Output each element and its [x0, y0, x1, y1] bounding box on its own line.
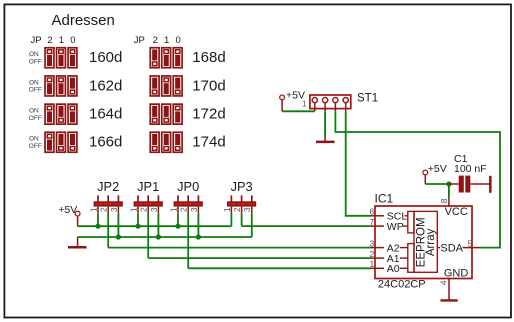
connection dashes from pin names to inner blocks	[400, 216, 408, 268]
junction GND/JP0.3	[196, 234, 201, 239]
wire net A0: JP0 pin2 to IC1 A0	[188, 267, 370, 269]
ground symbol under IC1	[441, 299, 458, 301]
wire JP2 pin2 down to A2 row	[107, 214, 109, 248]
junction GND/JP1.3	[156, 234, 161, 239]
svg-text:100 nF: 100 nF	[454, 163, 487, 175]
DIP switch setting 166d (JP2/JP1/JP0)	[45, 132, 77, 152]
DIP switch setting 160d (JP2/JP1/JP0)	[45, 48, 77, 68]
pin 1 A0 of IC1	[369, 259, 384, 269]
svg-text:172d: 172d	[192, 106, 225, 123]
svg-text:JP2: JP2	[97, 179, 119, 194]
svg-text:168d: 168d	[192, 49, 225, 66]
svg-text:3: 3	[190, 207, 199, 212]
svg-text:3: 3	[150, 207, 159, 212]
column header "JP 2 1 0" (right)	[134, 35, 181, 46]
svg-text:1: 1	[129, 207, 138, 212]
svg-text:WP: WP	[387, 221, 404, 233]
label EEPROM Array (rotated)	[416, 217, 437, 267]
DIP switch setting 174d (JP2/JP1/JP0)	[150, 132, 182, 152]
jumper JP1	[134, 195, 163, 213]
junction +5V/JP1.1	[135, 224, 140, 229]
svg-text:2: 2	[233, 207, 242, 212]
junction +5V/JP0.1	[175, 224, 180, 229]
pin 2 A1 of IC1	[369, 249, 384, 259]
ON/OFF label row 4	[29, 136, 42, 150]
wire JP1 pin2 down to A1 row	[147, 214, 149, 259]
svg-text:174d: 174d	[192, 134, 225, 151]
wire JP3 pin3 to GND row	[251, 214, 253, 237]
pin numbers 1 2 3 of JP2	[89, 207, 118, 212]
pin 6 SCL of IC1	[369, 207, 384, 217]
svg-text:GND: GND	[444, 268, 469, 280]
wire +5V to ST1 pin 1	[282, 110, 315, 112]
jumper JP2	[94, 195, 123, 213]
svg-text:1: 1	[223, 207, 232, 212]
pin numbers 1 2 3 of JP1	[129, 207, 158, 212]
DIP switch setting 164d (JP2/JP1/JP0)	[45, 104, 77, 124]
svg-text:0: 0	[176, 35, 181, 46]
wire JP1 pin1 to +5V row	[137, 214, 139, 227]
svg-text:ON: ON	[29, 51, 39, 58]
svg-text:JP0: JP0	[177, 179, 199, 194]
junction GND/JP2.3	[116, 234, 121, 239]
svg-text:2: 2	[369, 249, 374, 259]
wire net SDA: ST1 pin 3 right and down to IC1 SDA	[335, 111, 500, 247]
svg-text:JP1: JP1	[137, 179, 159, 194]
+5V supply symbol at C1	[423, 170, 428, 184]
svg-text:6: 6	[369, 207, 374, 217]
svg-text:2: 2	[180, 207, 189, 212]
wire net A1: JP1 pin2 to IC1 A1	[148, 257, 370, 259]
inner block: address bracket	[408, 244, 414, 273]
svg-text:OFF: OFF	[29, 143, 42, 150]
svg-text:2: 2	[140, 207, 149, 212]
svg-text:164d: 164d	[89, 106, 122, 123]
svg-text:170d: 170d	[192, 77, 225, 94]
svg-text:OFF: OFF	[29, 59, 42, 66]
svg-text:+5V: +5V	[428, 163, 447, 175]
inner block: EEPROM array rectangle	[414, 211, 437, 272]
wire net A2: JP2 pin2 to IC1 A2	[108, 247, 370, 249]
ground symbol under ST1	[316, 137, 335, 142]
svg-text:3: 3	[243, 207, 252, 212]
svg-text:2: 2	[153, 35, 158, 46]
svg-text:ST1: ST1	[357, 92, 378, 104]
svg-text:A0: A0	[387, 263, 400, 275]
pin numbers 1 2 3 of JP3	[223, 207, 252, 212]
wire JP0 pin3 to GND row	[197, 214, 199, 237]
svg-text:3: 3	[110, 207, 119, 212]
DIP switch setting 172d (JP2/JP1/JP0)	[150, 104, 182, 124]
wire VCC node down to IC1 VCC pin	[448, 184, 450, 198]
wire JP2 pin1 to +5V row	[97, 214, 99, 227]
wire GND row (net GND) from ground to JP3 pin 3	[78, 236, 252, 238]
svg-text:8: 8	[439, 198, 449, 203]
svg-text:162d: 162d	[89, 77, 122, 94]
svg-text:0: 0	[70, 35, 75, 46]
svg-text:OFF: OFF	[29, 87, 42, 94]
pin numbers 1 2 3 of JP0	[169, 207, 198, 212]
capacitor C1	[449, 176, 490, 193]
svg-text:1: 1	[59, 35, 64, 46]
wire JP3 pin1 to +5V row	[230, 214, 232, 227]
junction VCC node	[446, 181, 451, 186]
svg-text:1: 1	[164, 35, 169, 46]
ground symbol right of C1 (rotated)	[489, 176, 492, 193]
svg-text:IC1: IC1	[375, 191, 394, 205]
+5V supply symbol (left, jumper row)	[75, 211, 80, 226]
svg-text:ON: ON	[29, 136, 39, 143]
svg-text:JP: JP	[134, 35, 145, 46]
DIP switch setting 168d (JP2/JP1/JP0)	[150, 48, 182, 68]
ON/OFF label row 1	[29, 51, 42, 65]
svg-text:1: 1	[89, 207, 98, 212]
pin 8 VCC of IC1	[439, 198, 449, 207]
svg-text:ON: ON	[29, 108, 39, 115]
wire ST1 pin 2 to ground	[324, 111, 326, 137]
jumper JP3	[227, 195, 256, 213]
op IC1 box (24C02CP EEPROM)	[375, 206, 472, 279]
ground symbol (left, jumper row)	[68, 237, 87, 247]
connector ST1	[310, 95, 351, 111]
svg-text:1: 1	[169, 207, 178, 212]
svg-text:7: 7	[369, 217, 374, 227]
svg-text:160d: 160d	[89, 49, 122, 66]
svg-text:+5V: +5V	[286, 90, 305, 102]
svg-text:3: 3	[369, 238, 374, 248]
wire +5V to VCC node	[425, 183, 449, 185]
svg-text:1: 1	[369, 259, 374, 269]
svg-text:JP3: JP3	[231, 179, 253, 194]
wire +5V row (net +5V) from supply to JP3 pin 1	[78, 225, 232, 227]
wire net SCL: ST1 pin 4 down to IC1 SCL	[346, 111, 371, 216]
pin 7 WP of IC1	[369, 217, 384, 227]
svg-text:+5V: +5V	[58, 204, 77, 216]
svg-text:166d: 166d	[89, 134, 122, 151]
wire JP3 pin2 down to WP wire	[241, 214, 243, 227]
wire net WP: JP3 pin2 to IC1 WP	[242, 225, 371, 227]
DIP switch setting 162d (JP2/JP1/JP0)	[45, 76, 77, 96]
junction +5V/JP2.1	[95, 224, 100, 229]
svg-text:2: 2	[47, 35, 52, 46]
svg-text:OFF: OFF	[29, 115, 42, 122]
ON/OFF label row 2	[29, 79, 42, 93]
jumper JP0	[174, 195, 203, 213]
svg-text:Adressen: Adressen	[52, 12, 115, 29]
svg-text:24C02CP: 24C02CP	[378, 279, 426, 291]
svg-text:Array: Array	[425, 228, 437, 256]
svg-text:VCC: VCC	[445, 206, 468, 218]
svg-text:SDA: SDA	[440, 242, 463, 254]
svg-text:4: 4	[439, 280, 449, 285]
DIP switch setting 170d (JP2/JP1/JP0)	[150, 76, 182, 96]
ON/OFF label row 3	[29, 108, 42, 122]
pin 4 GND of IC1	[439, 279, 449, 300]
wire JP1 pin3 to GND row	[157, 214, 159, 237]
+5V supply symbol at ST1	[280, 95, 285, 111]
wire JP2 pin3 to GND row	[117, 214, 119, 237]
wire JP0 pin1 to +5V row	[177, 214, 179, 227]
pin 5 SDA of IC1	[437, 238, 480, 248]
pin 3 A2 of IC1	[369, 238, 384, 248]
inner block: serial control bracket	[408, 211, 414, 233]
svg-text:5: 5	[468, 238, 473, 248]
svg-text:ON: ON	[29, 79, 39, 86]
column header "JP 2 1 0" (left)	[31, 35, 76, 46]
wire JP0 pin2 down to A0 row	[187, 214, 189, 269]
svg-text:2: 2	[100, 207, 109, 212]
svg-text:JP: JP	[31, 35, 42, 46]
